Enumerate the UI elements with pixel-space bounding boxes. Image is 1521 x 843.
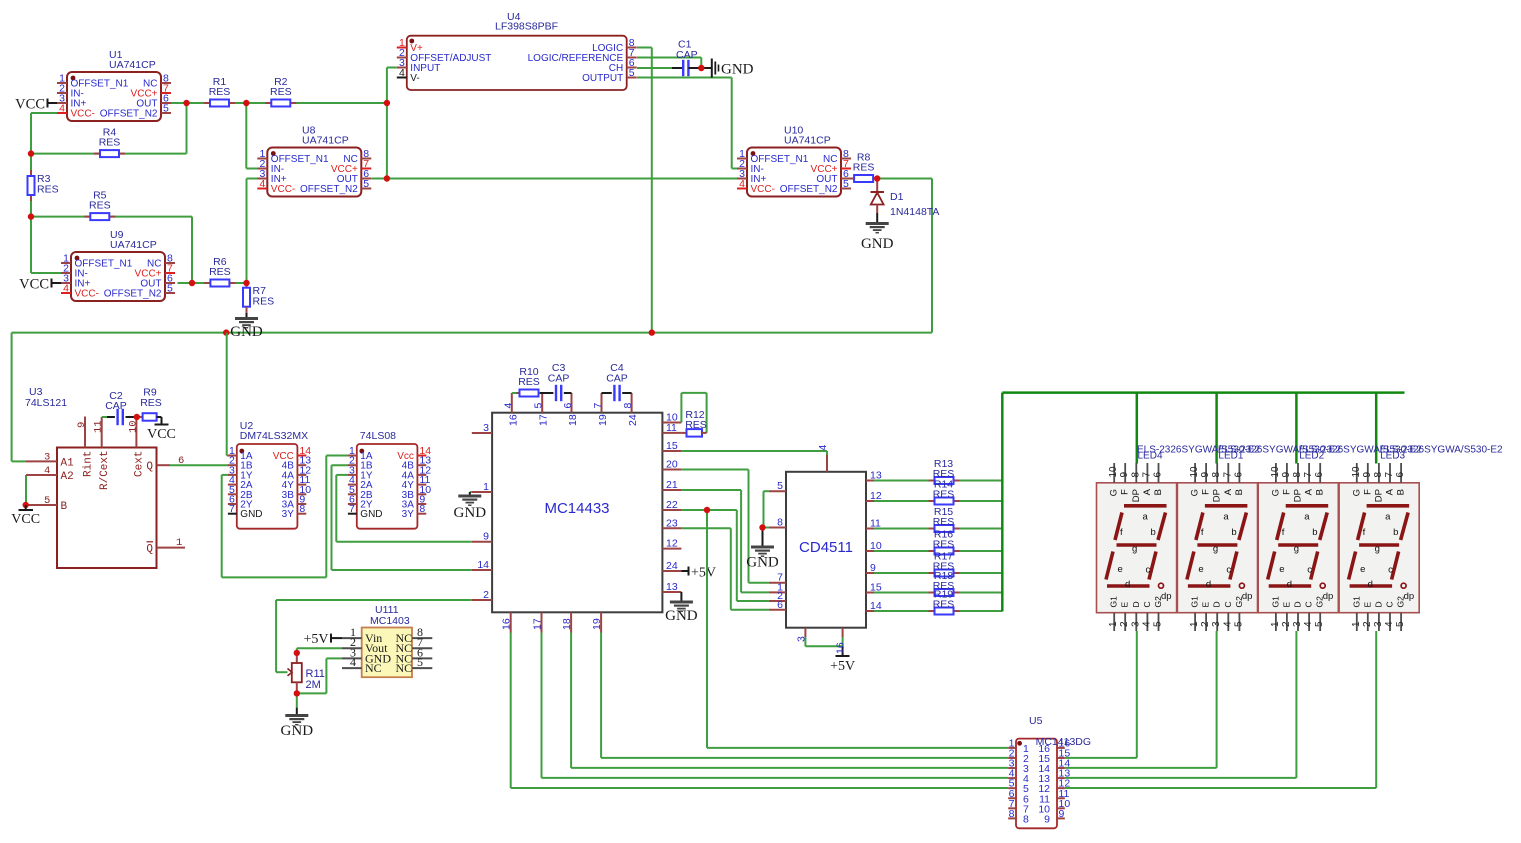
svg-text:GND: GND	[281, 723, 314, 739]
svg-text:V-: V-	[410, 73, 419, 84]
svg-text:5: 5	[163, 103, 169, 115]
svg-text:b: b	[1231, 527, 1236, 538]
svg-text:f: f	[1201, 527, 1204, 538]
svg-text:21: 21	[666, 479, 678, 491]
svg-text:1: 1	[483, 481, 489, 493]
svg-text:b: b	[1312, 527, 1317, 538]
svg-text:dp: dp	[1161, 591, 1172, 602]
svg-text:3Y: 3Y	[402, 509, 415, 520]
svg-text:16: 16	[835, 642, 847, 654]
svg-text:G1: G1	[1351, 596, 1361, 608]
svg-text:d: d	[1125, 579, 1130, 590]
svg-text:9: 9	[1200, 472, 1211, 478]
svg-text:VCC-: VCC-	[71, 109, 95, 120]
svg-text:22: 22	[666, 499, 678, 511]
svg-text:dp: dp	[1242, 591, 1253, 602]
svg-text:5: 5	[363, 178, 369, 190]
svg-text:+5V: +5V	[830, 659, 855, 674]
svg-text:4: 4	[1384, 621, 1395, 627]
svg-text:VCC-: VCC-	[271, 184, 295, 195]
svg-text:6: 6	[1395, 472, 1406, 478]
svg-text:d: d	[1287, 579, 1292, 590]
svg-text:14: 14	[477, 559, 489, 571]
svg-text:9: 9	[1362, 472, 1373, 478]
svg-text:7: 7	[1303, 472, 1314, 478]
svg-text:C: C	[1142, 601, 1152, 607]
svg-text:23: 23	[666, 517, 678, 529]
svg-text:CD4511: CD4511	[799, 539, 853, 556]
svg-text:3Y: 3Y	[282, 509, 295, 520]
svg-text:4: 4	[1303, 621, 1314, 627]
svg-text:g: g	[1213, 544, 1218, 555]
svg-text:1: 1	[1189, 621, 1200, 627]
svg-text:D: D	[1131, 601, 1141, 607]
svg-text:+5V: +5V	[303, 632, 328, 647]
svg-text:RES: RES	[933, 539, 955, 551]
svg-text:3: 3	[1130, 621, 1141, 627]
svg-text:11: 11	[666, 422, 677, 434]
svg-text:LF398S8PBF: LF398S8PBF	[495, 21, 558, 33]
svg-text:a: a	[1143, 512, 1149, 523]
svg-text:RES: RES	[933, 599, 955, 611]
svg-text:LED2: LED2	[1299, 451, 1324, 462]
svg-text:d: d	[1206, 579, 1211, 590]
svg-text:5: 5	[1395, 621, 1406, 627]
svg-text:OFFSET_N2: OFFSET_N2	[100, 109, 158, 120]
svg-text:4: 4	[817, 445, 829, 451]
svg-text:4: 4	[44, 465, 50, 477]
svg-text:e: e	[1118, 564, 1123, 575]
svg-text:VCC: VCC	[147, 427, 176, 442]
svg-text:b: b	[1393, 527, 1398, 538]
svg-text:g: g	[1294, 544, 1299, 555]
svg-text:VCC: VCC	[11, 512, 40, 527]
svg-text:74LS08: 74LS08	[360, 430, 396, 442]
svg-text:1: 1	[1108, 621, 1119, 627]
svg-text:6: 6	[777, 599, 783, 611]
svg-text:7: 7	[349, 503, 355, 515]
svg-text:U5: U5	[1029, 715, 1043, 727]
svg-text:1: 1	[1270, 621, 1281, 627]
svg-text:CAP: CAP	[606, 373, 628, 385]
svg-text:RES: RES	[853, 162, 875, 174]
svg-text:c: c	[1307, 565, 1312, 576]
svg-text:3: 3	[44, 451, 50, 463]
svg-text:18: 18	[567, 414, 579, 426]
svg-text:RES: RES	[685, 419, 707, 431]
svg-text:VCC-: VCC-	[75, 289, 99, 300]
svg-text:7: 7	[592, 403, 604, 409]
svg-text:RES: RES	[37, 184, 59, 196]
svg-text:RES: RES	[140, 397, 162, 409]
svg-text:g: g	[1375, 544, 1380, 555]
svg-text:G1: G1	[1109, 596, 1119, 608]
svg-text:9: 9	[76, 422, 88, 428]
svg-text:10: 10	[1351, 466, 1362, 478]
svg-text:B: B	[1153, 489, 1164, 495]
svg-text:A: A	[1223, 488, 1234, 495]
svg-text:c: c	[1226, 565, 1231, 576]
svg-text:F: F	[1201, 489, 1212, 495]
svg-text:2: 2	[483, 589, 489, 601]
svg-text:15: 15	[666, 440, 678, 452]
svg-text:RES: RES	[99, 137, 121, 149]
svg-text:LED3: LED3	[1380, 451, 1405, 462]
svg-text:6: 6	[1314, 472, 1325, 478]
svg-text:5: 5	[44, 495, 50, 507]
svg-text:2: 2	[1200, 621, 1211, 627]
svg-text:VCC-: VCC-	[751, 184, 775, 195]
svg-text:5: 5	[1314, 621, 1325, 627]
svg-text:Q: Q	[146, 461, 153, 473]
svg-text:3: 3	[1292, 621, 1303, 627]
svg-text:A: A	[1304, 488, 1315, 495]
svg-text:MC14433: MC14433	[544, 500, 609, 517]
svg-text:CAP: CAP	[676, 49, 698, 61]
svg-text:8: 8	[1292, 472, 1303, 478]
svg-text:2M: 2M	[306, 679, 321, 691]
svg-text:RES: RES	[209, 86, 231, 98]
svg-text:GND: GND	[360, 509, 382, 520]
svg-text:a: a	[1223, 512, 1229, 523]
svg-text:18: 18	[561, 618, 573, 630]
svg-text:f: f	[1363, 527, 1366, 538]
svg-text:+5V: +5V	[691, 566, 716, 581]
svg-text:C: C	[1304, 601, 1314, 607]
svg-text:4: 4	[739, 178, 745, 190]
svg-text:OFFSET_N2: OFFSET_N2	[780, 184, 838, 195]
svg-text:GND: GND	[746, 555, 779, 571]
svg-text:5: 5	[777, 480, 783, 492]
svg-text:B: B	[1315, 489, 1326, 495]
svg-text:8: 8	[1211, 472, 1222, 478]
svg-text:d: d	[1368, 579, 1373, 590]
svg-text:e: e	[1198, 564, 1203, 575]
svg-text:UA741CP: UA741CP	[784, 135, 831, 147]
svg-text:c: c	[1146, 565, 1151, 576]
svg-text:R/Cext: R/Cext	[99, 450, 111, 490]
svg-text:GND: GND	[861, 236, 894, 252]
svg-text:8: 8	[1023, 813, 1029, 825]
svg-text:GND: GND	[240, 509, 262, 520]
svg-text:5: 5	[417, 655, 423, 669]
svg-text:E: E	[1362, 602, 1372, 608]
svg-text:G1: G1	[1190, 596, 1200, 608]
svg-text:VCC: VCC	[19, 277, 49, 293]
svg-text:F: F	[1120, 489, 1131, 495]
svg-text:4: 4	[259, 178, 265, 190]
svg-text:10: 10	[127, 420, 139, 433]
svg-text:G1: G1	[1270, 596, 1280, 608]
svg-text:NC: NC	[396, 661, 413, 675]
svg-text:G: G	[1351, 489, 1362, 496]
svg-text:8: 8	[1373, 472, 1384, 478]
svg-text:a: a	[1385, 512, 1391, 523]
svg-text:b: b	[1151, 527, 1156, 538]
svg-text:10: 10	[1189, 466, 1200, 478]
svg-text:MC1413DG: MC1413DG	[1036, 736, 1091, 748]
svg-text:12: 12	[666, 538, 678, 550]
svg-text:CAP: CAP	[548, 373, 570, 385]
svg-text:f: f	[1282, 527, 1285, 538]
svg-text:1: 1	[176, 537, 182, 549]
svg-text:8: 8	[777, 517, 783, 529]
svg-text:8: 8	[622, 403, 634, 409]
svg-text:16: 16	[501, 618, 513, 630]
svg-text:24: 24	[627, 414, 639, 426]
svg-text:E: E	[1120, 602, 1130, 608]
svg-text:DP: DP	[1212, 489, 1223, 502]
svg-text:Rint: Rint	[83, 451, 95, 477]
svg-text:16: 16	[507, 414, 519, 426]
svg-text:7: 7	[1141, 472, 1152, 478]
svg-text:5: 5	[167, 283, 173, 295]
svg-text:F: F	[1281, 489, 1292, 495]
svg-text:8: 8	[1009, 808, 1015, 820]
svg-text:G: G	[1190, 489, 1201, 496]
svg-text:F: F	[1362, 489, 1373, 495]
svg-text:Q: Q	[146, 544, 153, 556]
svg-text:10: 10	[1108, 466, 1119, 478]
svg-text:17: 17	[538, 414, 550, 426]
svg-text:UA741CP: UA741CP	[109, 59, 156, 71]
svg-text:17: 17	[532, 618, 544, 630]
svg-text:RES: RES	[209, 266, 231, 278]
svg-text:4: 4	[502, 403, 514, 409]
svg-text:6: 6	[562, 403, 574, 409]
svg-text:4: 4	[63, 283, 69, 295]
svg-text:4: 4	[399, 67, 405, 79]
svg-text:LED4: LED4	[1138, 451, 1163, 462]
svg-text:10: 10	[1270, 466, 1281, 478]
svg-text:RES: RES	[518, 376, 540, 388]
svg-text:8: 8	[299, 503, 305, 515]
svg-text:C: C	[1385, 601, 1395, 607]
svg-text:7: 7	[229, 503, 235, 515]
svg-text:D: D	[1212, 601, 1222, 607]
svg-text:5: 5	[533, 403, 545, 409]
svg-text:dp: dp	[1323, 591, 1334, 602]
svg-text:3: 3	[795, 636, 807, 642]
svg-text:GND: GND	[665, 608, 698, 624]
svg-text:6: 6	[1153, 472, 1164, 478]
svg-text:9: 9	[1044, 813, 1050, 825]
svg-text:G: G	[1109, 489, 1120, 496]
svg-text:LED1: LED1	[1218, 451, 1243, 462]
svg-text:UA741CP: UA741CP	[302, 135, 349, 147]
svg-text:Cext: Cext	[133, 451, 145, 477]
svg-text:8: 8	[1130, 472, 1141, 478]
svg-text:B: B	[61, 501, 68, 513]
svg-text:9: 9	[483, 531, 489, 543]
svg-text:E: E	[1281, 602, 1291, 608]
svg-text:e: e	[1279, 564, 1284, 575]
svg-text:D: D	[1293, 601, 1303, 607]
svg-text:3: 3	[1373, 621, 1384, 627]
svg-text:E: E	[1201, 602, 1211, 608]
svg-text:G: G	[1270, 489, 1281, 496]
svg-text:f: f	[1120, 527, 1123, 538]
svg-text:2: 2	[1119, 621, 1130, 627]
svg-text:8: 8	[419, 503, 425, 515]
svg-text:A: A	[1385, 488, 1396, 495]
svg-text:19: 19	[591, 618, 603, 630]
svg-text:1N4148TA: 1N4148TA	[890, 206, 939, 218]
svg-text:RES: RES	[270, 86, 292, 98]
svg-text:B: B	[1396, 489, 1407, 495]
svg-text:5: 5	[843, 178, 849, 190]
svg-text:3: 3	[1211, 621, 1222, 627]
svg-text:CAP: CAP	[105, 400, 127, 412]
svg-text:VCC: VCC	[15, 97, 45, 113]
svg-text:RES: RES	[933, 489, 955, 501]
svg-text:MC1403: MC1403	[370, 615, 410, 627]
svg-text:1: 1	[1351, 621, 1362, 627]
svg-text:C: C	[1223, 601, 1233, 607]
svg-text:DM74LS32MX: DM74LS32MX	[240, 430, 308, 442]
svg-text:4: 4	[1141, 621, 1152, 627]
svg-text:7: 7	[1222, 472, 1233, 478]
svg-text:19: 19	[597, 414, 609, 426]
svg-text:A1: A1	[61, 457, 75, 469]
svg-text:4: 4	[1222, 621, 1233, 627]
svg-text:20: 20	[666, 459, 678, 471]
svg-text:GND: GND	[721, 62, 754, 78]
svg-text:2: 2	[1281, 621, 1292, 627]
svg-text:DP: DP	[1131, 489, 1142, 502]
svg-text:DP: DP	[1293, 489, 1304, 502]
svg-text:4: 4	[59, 103, 65, 115]
svg-text:e: e	[1360, 564, 1365, 575]
svg-text:OUTPUT: OUTPUT	[582, 73, 623, 84]
svg-text:5: 5	[629, 67, 635, 79]
svg-text:7: 7	[1384, 472, 1395, 478]
svg-text:13: 13	[666, 581, 678, 593]
svg-text:NC: NC	[365, 661, 382, 675]
svg-text:B: B	[1234, 489, 1245, 495]
svg-text:dp: dp	[1404, 591, 1415, 602]
svg-text:11: 11	[93, 420, 105, 433]
svg-text:RES: RES	[89, 200, 111, 212]
svg-text:5: 5	[1233, 621, 1244, 627]
svg-text:OFFSET_N2: OFFSET_N2	[300, 184, 358, 195]
svg-text:24: 24	[666, 560, 678, 572]
svg-text:9: 9	[1281, 472, 1292, 478]
svg-text:c: c	[1388, 565, 1393, 576]
svg-text:9: 9	[1059, 808, 1065, 820]
svg-text:D: D	[1373, 601, 1383, 607]
svg-text:D1: D1	[890, 191, 904, 203]
svg-text:3: 3	[483, 422, 489, 434]
svg-text:OFFSET_N2: OFFSET_N2	[104, 289, 162, 300]
svg-text:a: a	[1304, 512, 1310, 523]
svg-text:RES: RES	[253, 296, 275, 308]
svg-text:RES: RES	[933, 516, 955, 528]
svg-text:UA741CP: UA741CP	[110, 239, 157, 251]
svg-text:A: A	[1142, 488, 1153, 495]
svg-text:74LS121: 74LS121	[25, 397, 67, 409]
svg-text:g: g	[1132, 544, 1137, 555]
svg-text:4: 4	[350, 655, 356, 669]
svg-text:GND: GND	[454, 505, 487, 521]
svg-text:A2: A2	[61, 471, 74, 483]
svg-text:DP: DP	[1373, 489, 1384, 502]
svg-text:GND: GND	[230, 324, 263, 340]
svg-text:6: 6	[1233, 472, 1244, 478]
svg-text:2: 2	[1362, 621, 1373, 627]
svg-text:9: 9	[1119, 472, 1130, 478]
svg-text:6: 6	[178, 455, 184, 467]
svg-text:5: 5	[1153, 621, 1164, 627]
